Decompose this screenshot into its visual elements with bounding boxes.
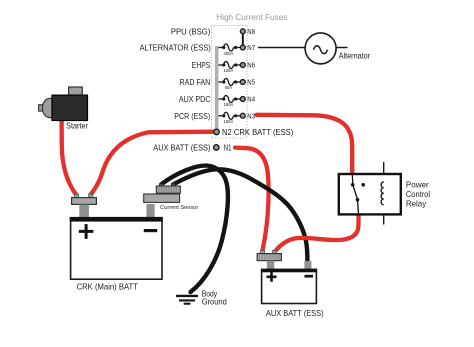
aux battery terminal cap — [257, 254, 281, 261]
main battery top bar — [70, 217, 163, 222]
svg-text:RAD FAN: RAD FAN — [180, 77, 211, 87]
svg-text:EHPS: EHPS — [192, 60, 211, 70]
main battery left post — [79, 205, 89, 218]
svg-text:N6: N6 — [247, 61, 255, 70]
minus symbol main battery — [144, 229, 157, 232]
svg-text:N3: N3 — [247, 112, 255, 121]
node N4 — [240, 97, 245, 102]
wire black: current sensor to body ground — [161, 166, 228, 292]
svg-text:AUX BATT (ESS): AUX BATT (ESS) — [266, 308, 324, 318]
current sensor top block — [156, 186, 180, 193]
current sensor bar — [144, 194, 180, 202]
wire red: battery positive to node N2 — [91, 132, 214, 195]
relay switch — [351, 174, 365, 214]
svg-text:125A: 125A — [224, 68, 235, 73]
node N1 — [214, 145, 219, 150]
wire N8 to N7 — [242, 31, 244, 47]
main battery terminal cap — [74, 194, 78, 198]
svg-text:PCR (ESS): PCR (ESS) — [174, 111, 210, 121]
svg-text:AUX PDC: AUX PDC — [179, 94, 210, 104]
wire black: current sensor to aux battery negative — [173, 169, 307, 261]
relay box U1 — [339, 174, 401, 214]
svg-text:Alternator: Alternator — [339, 51, 371, 61]
fuse F3 60A (RAD FAN) — [219, 79, 243, 86]
wire N7 to alternator — [258, 47, 305, 49]
svg-text:60A: 60A — [225, 85, 233, 90]
svg-text:High Current Fuses: High Current Fuses — [216, 12, 287, 22]
svg-text:ALTERNATOR (ESS): ALTERNATOR (ESS) — [140, 43, 211, 53]
fuse F1 300A (ALTERNATOR) — [219, 44, 243, 51]
svg-text:Control: Control — [406, 189, 430, 199]
fuse F5 150A (PCR) — [219, 112, 243, 119]
aux battery top bar — [261, 269, 317, 273]
aux battery body — [262, 270, 317, 304]
svg-text:Starter: Starter — [66, 120, 88, 130]
alternator — [305, 33, 336, 64]
svg-text:150A: 150A — [224, 119, 235, 124]
svg-text:N5: N5 — [247, 78, 255, 87]
relay coil lead bottom — [383, 205, 385, 225]
svg-text:300A: 300A — [224, 51, 235, 56]
current sensor pins — [159, 184, 163, 187]
svg-text:Current Sensor: Current Sensor — [160, 205, 198, 211]
node N5 — [240, 80, 245, 85]
svg-text:AUX BATT (ESS): AUX BATT (ESS) — [153, 142, 210, 152]
plus symbol main battery — [79, 224, 94, 239]
node N8 — [240, 29, 245, 34]
svg-text:Ground: Ground — [202, 297, 227, 306]
svg-text:PPU (BSG): PPU (BSG) — [171, 26, 211, 36]
svg-text:N4: N4 — [247, 95, 255, 104]
node N3 — [240, 113, 245, 118]
aux battery right post — [304, 261, 311, 269]
svg-text:150A: 150A — [224, 102, 235, 107]
relay coil — [381, 182, 384, 205]
wire red: relay switch to aux battery positive — [274, 214, 358, 253]
svg-text:Relay: Relay — [406, 199, 427, 209]
body ground symbol — [176, 296, 198, 304]
node N7 — [240, 45, 245, 50]
relay coil lead top — [383, 162, 385, 182]
starter body — [52, 95, 88, 120]
main battery right post — [146, 204, 154, 218]
aux battery left post — [267, 261, 274, 270]
svg-text:N1: N1 — [224, 142, 232, 152]
node N6 — [240, 63, 245, 68]
wire alternator right lead — [336, 47, 348, 49]
starter nose nub — [39, 105, 44, 111]
High Current Fuses box (dashed) — [212, 26, 248, 139]
wire red: node N3 to relay switch — [257, 115, 353, 175]
minus symbol aux battery — [305, 275, 314, 278]
fuse F4 150A (AUX PDC) — [219, 96, 243, 103]
wire red: starter to battery positive — [62, 118, 76, 194]
wire red: node N1 to aux battery positive — [235, 148, 269, 252]
main battery body — [71, 218, 162, 279]
node N2 — [214, 129, 219, 134]
starter nose — [42, 98, 52, 117]
svg-text:N8: N8 — [247, 27, 255, 36]
svg-text:Power: Power — [406, 180, 429, 190]
svg-text:N7: N7 — [247, 43, 255, 52]
aux battery wire ferrules — [260, 250, 264, 254]
plus symbol aux battery — [267, 272, 277, 282]
fuse F2 125A (EHPS) — [219, 62, 243, 69]
svg-text:CRK (Main) BATT: CRK (Main) BATT — [77, 281, 138, 291]
bus bar — [215, 46, 219, 132]
starter top tab — [69, 87, 83, 96]
svg-text:N2 CRK BATT (ESS): N2 CRK BATT (ESS) — [222, 127, 293, 137]
